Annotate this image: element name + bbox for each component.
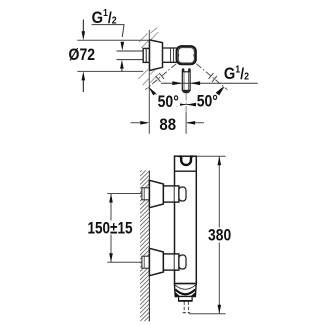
- body inner edge (top view): [178, 48, 194, 63]
- outlet cup: [174, 284, 196, 297]
- lever handle (top view): [182, 72, 190, 91]
- upper union escutcheon (front view): [149, 180, 163, 207]
- wall hatching (top view): [138, 28, 158, 85]
- body cap line: [175, 170, 197, 172]
- 150±15 extension lines: [107, 193, 142, 195]
- svg-text:50°: 50°: [158, 93, 179, 111]
- dimension 150±15: [110, 194, 112, 263]
- label 50° (right): [196, 92, 219, 106]
- outlet corner fills: [175, 292, 180, 296]
- 50° swing centreline (left): [145, 64, 176, 90]
- 50° angle arc (right): [186, 87, 224, 105]
- mixer body (front view): [175, 156, 197, 283]
- 50° angle arc (left): [149, 87, 187, 105]
- label 50° (left): [157, 93, 181, 107]
- in-wall union (top view): [143, 48, 149, 62]
- G1/2 right leader arrow: [216, 87, 224, 95]
- svg-text:150±15: 150±15: [87, 219, 132, 237]
- water outlet hidden lines: [183, 302, 191, 314]
- wall line (front view): [148, 171, 150, 322]
- mousseur block: [179, 297, 193, 301]
- lower union nose: [179, 255, 186, 269]
- svg-text:Ø72: Ø72: [69, 46, 95, 64]
- lower union nut: [163, 254, 179, 270]
- equality ticks on swing lines: [156, 73, 217, 82]
- connection neck (top view): [163, 48, 177, 62]
- G1/2 (inlet) leader: [92, 25, 124, 37]
- 50° swing centreline (right): [196, 64, 227, 90]
- svg-text:88: 88: [159, 117, 176, 135]
- outlet upper lip arc: [175, 285, 196, 289]
- dimension 88: [131, 122, 148, 124]
- handle position dimension line / G1/2 underline: [161, 82, 258, 84]
- lever pivot stubs: [182, 68, 185, 72]
- escutcheon rosette (top view): [150, 40, 163, 71]
- upper union nut: [163, 186, 179, 202]
- Ø72 dimension arrows: [82, 20, 84, 32]
- Ø72 extension lines: [77, 39, 149, 41]
- outlet recess arc: [175, 289, 195, 294]
- wall line (top view): [148, 30, 150, 134]
- in-wall fitting (lower): [142, 256, 150, 268]
- dimension 380: [218, 156, 220, 314]
- arc arrowheads: [149, 87, 157, 95]
- svg-text:380: 380: [208, 226, 231, 244]
- lever end cap: [182, 90, 190, 93]
- in-wall fitting (upper): [142, 188, 150, 200]
- inlet pipe stub in wall (top view): [117, 51, 144, 60]
- shower holder U-hook: [180, 156, 193, 165]
- body centreline: [185, 94, 187, 113]
- 380 extension lines: [197, 155, 226, 157]
- mixer body (top view, rounded square): [177, 46, 196, 64]
- svg-text:50°: 50°: [197, 92, 218, 110]
- label G1/2 (right): [222, 64, 260, 80]
- lower union escutcheon (front view): [149, 248, 163, 275]
- upper union nose: [179, 187, 186, 201]
